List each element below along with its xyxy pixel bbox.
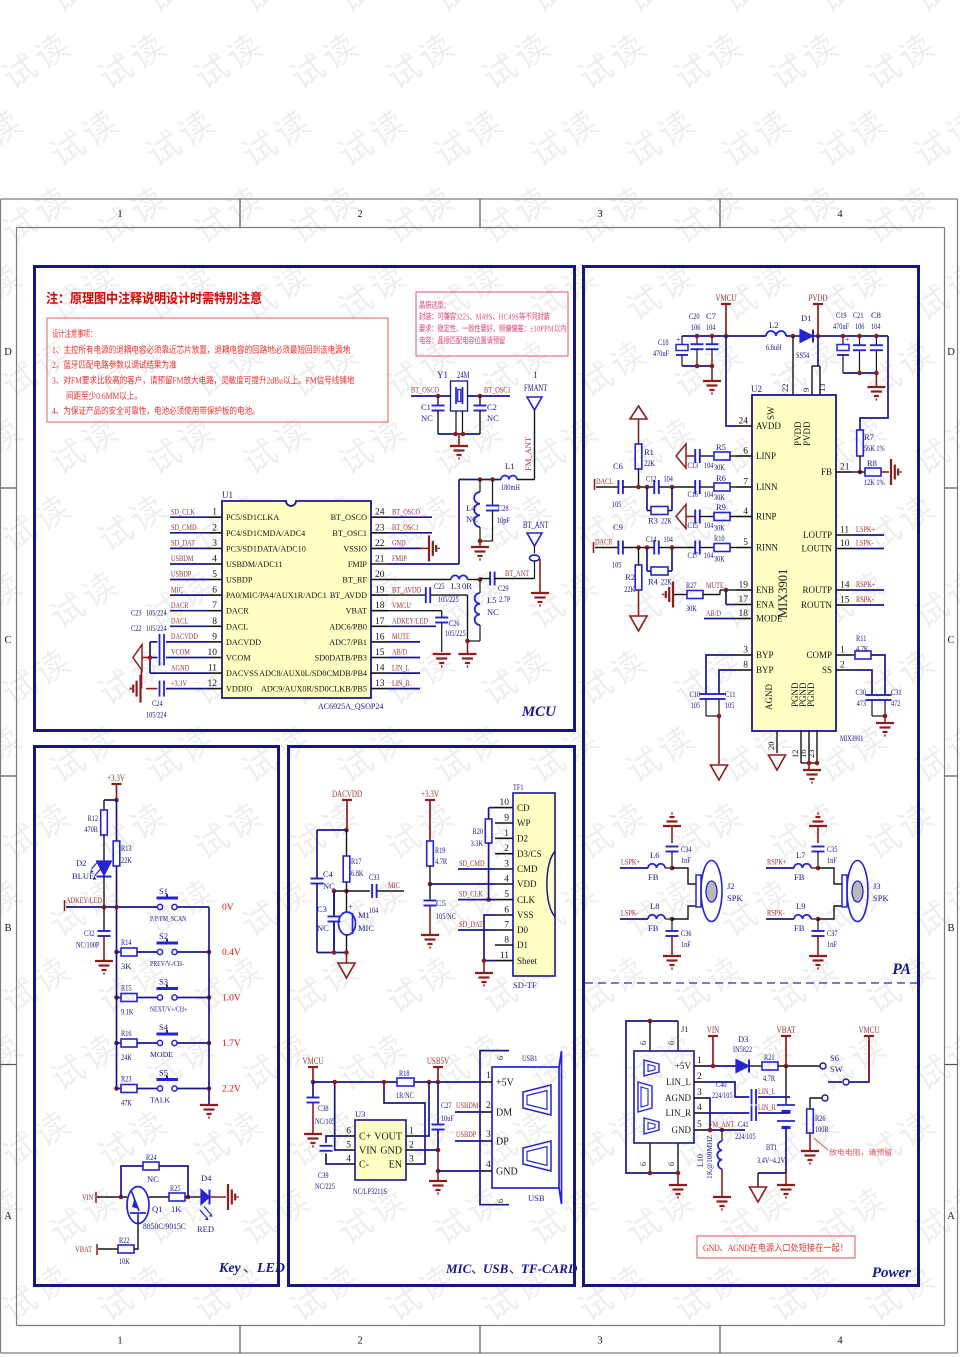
svg-text:R2: R2 [625,572,635,582]
earth ground D4 [227,1184,229,1210]
wire VDD row [430,883,495,885]
resistor R4 loop [646,548,648,572]
svg-text:C23: C23 [131,608,142,618]
svg-text:473: 473 [857,698,866,708]
svg-text:DACVSS: DACVSS [226,669,259,678]
svg-text:J3: J3 [873,881,881,891]
svg-text:1: 1 [504,829,509,839]
junction PVDD flag [816,334,821,339]
svg-text:B: B [4,923,11,934]
svg-text:15: 15 [840,596,850,606]
wire net DACR [170,610,210,612]
wire FM antenna [534,410,536,480]
svg-text:WP: WP [517,818,531,828]
U1 pin 7 stub left [210,610,222,612]
svg-text:104: 104 [704,489,714,499]
capacitor C21 [859,336,861,345]
U1 pin 15 stub right [371,657,388,659]
resistor R23 [114,1086,119,1091]
capacitor C16 [694,480,696,494]
wire right cap gnd bus [843,372,876,374]
svg-text:BT1: BT1 [766,1142,777,1152]
U3 pin 2 GND stub [406,1149,416,1151]
svg-text:C30: C30 [856,687,867,697]
svg-text:6: 6 [667,1041,676,1045]
wire BT_RF pin20 [388,579,451,581]
svg-text:6: 6 [496,1056,505,1060]
svg-text:L10: L10 [696,1154,705,1167]
svg-text:L8: L8 [650,901,659,911]
resistor R10 [714,544,730,552]
wire S4 to rail [177,1042,209,1044]
svg-text:NC: NC [317,923,329,933]
svg-text:PA: PA [892,961,911,978]
inverted ground above C35 [809,825,827,827]
svg-text:TALK: TALK [150,1096,171,1105]
wire C6 to C12 [623,486,654,488]
junction right gnd bus [857,371,862,376]
svg-text:10: 10 [500,798,510,808]
J1 pin 5 GND stub [694,1129,706,1131]
svg-text:14: 14 [840,581,850,591]
svg-text:SD-TF: SD-TF [513,980,537,990]
svg-text:C: C [4,635,11,646]
LED D4 RED [201,1190,210,1205]
svg-text:6.8K: 6.8K [351,868,364,878]
junction L10 [720,1128,725,1133]
J1 pin 3 AGND stub [694,1097,706,1099]
U2 pin 22 SW stub [792,336,794,395]
junction L4 bottom [478,539,483,544]
gnd agnd note box [697,1236,855,1258]
junction C34 [670,866,675,871]
capacitor C38 [312,1082,314,1098]
U2 pin 20 AGND stub [776,731,778,753]
svg-text:RINN: RINN [756,543,778,553]
diode D1 SS54 [800,330,813,343]
svg-text:BT_OSC1: BT_OSC1 [332,529,367,538]
svg-text:NEXT/V+/CH+: NEXT/V+/CH+ [150,1005,188,1014]
svg-text:AGND: AGND [764,684,774,710]
usb rail wire [313,1081,397,1083]
svg-text:SD_DAT: SD_DAT [459,919,484,929]
svg-text:1: 1 [486,1071,491,1081]
svg-text:LSPK+: LSPK+ [621,857,640,867]
resistor R12 [101,810,108,835]
svg-text:AC6925A_QSOP24: AC6925A_QSOP24 [318,702,383,711]
svg-text:FMIP: FMIP [348,560,368,569]
svg-text:+5V: +5V [496,1078,515,1089]
svg-text:L6: L6 [650,850,659,860]
svg-text:4.7R: 4.7R [763,1073,775,1083]
U1 pin 14 stub right [371,672,388,674]
svg-text:L4: L4 [466,503,476,513]
TF1 pin 6 VSS stub [495,914,513,916]
svg-text:10K: 10K [119,1256,130,1266]
svg-text:ROUTP: ROUTP [802,585,832,595]
svg-text:C37: C37 [827,928,838,938]
svg-text:C: C [947,635,954,646]
svg-text:FB: FB [648,872,659,882]
svg-text:ENB: ENB [756,585,774,595]
svg-text:VMCU: VMCU [858,1026,879,1036]
svg-text:PA0/MIC/PA4/AUX1R/ADC1: PA0/MIC/PA4/AUX1R/ADC1 [226,591,327,600]
svg-text:2: 2 [504,844,509,854]
svg-text:4: 4 [837,209,843,220]
open arrow RINP [676,505,686,529]
capacitor C12 [653,480,655,494]
svg-text:22K: 22K [624,584,635,594]
TF1 pin 11 Sheet stub [495,960,513,962]
svg-text:NC/100P: NC/100P [76,940,100,950]
capacitor C25 [425,587,427,603]
capacitor C23 [159,634,161,650]
svg-text:S5: S5 [159,1068,168,1078]
svg-text:C12: C12 [646,474,657,484]
U2 pin 2 SS stub [836,669,852,671]
svg-text:3K: 3K [121,961,132,971]
ground C32 [95,960,113,962]
wire left cap gnd bus [682,365,712,367]
capacitor C30 [866,694,879,696]
svg-text:5: 5 [697,1120,702,1130]
svg-text:LIN_R: LIN_R [666,1108,692,1118]
svg-text:105/225: 105/225 [445,628,466,638]
capacitor C29 [489,572,491,586]
U2 pin 15 ROUTN stub [836,604,852,606]
U1 pin 13 stub right [371,688,388,690]
svg-text:R5: R5 [716,442,726,452]
svg-text:PC3/SD1DATA/ADC10: PC3/SD1DATA/ADC10 [226,544,306,553]
wire to speaker top [672,868,696,884]
svg-text:C4: C4 [323,869,334,879]
svg-text:VMCU: VMCU [392,600,411,610]
svg-text:SD_DAT: SD_DAT [171,538,196,548]
wire BT_AVDD pin19 [388,594,426,596]
svg-text:8850C/9015C: 8850C/9015C [143,1221,186,1231]
svg-text:R26: R26 [815,1113,826,1123]
net label RSPK+ [852,589,884,591]
svg-text:C7: C7 [706,311,716,321]
junction VDD [428,882,433,887]
inverted ground above C34 [663,825,681,827]
IC U1 AC6925A [222,501,371,698]
wire VBAT [98,1248,118,1250]
svg-text:106: 106 [855,321,864,331]
wire S2 to rail [177,951,209,953]
ground below C26 [433,653,451,655]
wire C30 C31 gnd [872,715,885,717]
wire S3 to rail [177,997,209,999]
capacitor C22 [159,650,161,666]
svg-text:PVDD: PVDD [802,421,812,446]
svg-text:NC/225: NC/225 [315,1181,335,1191]
wire mic gnd bus [317,952,347,954]
U2 pin 3 BYP stub [736,654,752,656]
svg-text:RSPK-: RSPK- [856,594,874,604]
J1 pin 2 LIN_L stub [694,1081,706,1083]
svg-text:SPK: SPK [873,893,889,903]
junction C36 [670,917,675,922]
svg-text:9.1K: 9.1K [121,1007,134,1017]
svg-text:FB: FB [648,923,659,933]
svg-text:GND: GND [392,538,406,548]
capacitor C35 [812,846,825,848]
svg-text:USBDP: USBDP [171,569,191,579]
svg-text:C6: C6 [613,461,623,471]
wire LIN_R pin13 [388,688,420,690]
wire crystal gnd bus [438,433,480,435]
junction VCOM [148,655,153,660]
svg-text:3.3K: 3.3K [471,838,484,848]
svg-text:470uF: 470uF [653,348,669,358]
svg-text:1K@100MHZ: 1K@100MHZ [705,1135,714,1179]
svg-text:C24: C24 [152,698,163,708]
capacitor C2 [479,396,481,406]
junction crystal left [436,394,441,399]
svg-text:D: D [4,347,12,358]
svg-text:C39: C39 [318,1170,329,1180]
svg-text:L1: L1 [505,461,514,471]
TF1 pin 10 CD stub [495,807,513,809]
svg-text:Key: Key [218,1261,242,1276]
svg-text:C29: C29 [498,583,509,593]
svg-text:104: 104 [871,321,881,331]
svg-text:4: 4 [486,1160,491,1170]
svg-text:BT_OSC1: BT_OSC1 [392,522,419,532]
svg-text:3.4V~4.2V: 3.4V~4.2V [757,1155,786,1165]
svg-text:BLUE: BLUE [72,871,94,881]
svg-text:21: 21 [375,555,385,565]
U2 pin 4 RINP stub [736,516,752,518]
svg-text:104: 104 [369,905,379,915]
MCU block border [35,267,575,731]
svg-text:1nF: 1nF [827,939,837,949]
svg-text:R20: R20 [473,826,484,836]
wire DACL in [596,486,618,488]
ground below L4 [479,541,481,546]
wire net USBDM [170,563,210,565]
Key LED title [218,1261,242,1276]
svg-text:VCOM: VCOM [171,647,190,657]
svg-text:+: + [845,335,850,344]
svg-text:104: 104 [706,322,716,332]
svg-text:C14: C14 [646,534,657,544]
svg-text:6: 6 [639,1041,648,1045]
svg-text:RSPK-: RSPK- [767,908,785,918]
svg-text:C35: C35 [827,844,838,854]
svg-text:LED: LED [256,1261,285,1276]
svg-text:4: 4 [212,555,217,565]
switch S1 [157,904,162,909]
crystal notes text [420,301,446,309]
svg-text:C15: C15 [688,520,699,530]
wire DACVDD left branch [317,829,347,831]
U1 pin 5 stub left [210,579,222,581]
capacitor C26 [441,611,443,618]
switch S3 [157,995,162,1000]
svg-text:AB/D: AB/D [392,647,407,657]
svg-text:BT_OSCO: BT_OSCO [331,513,367,522]
svg-text:R8: R8 [867,458,877,468]
ground battery [785,1173,787,1184]
U3 pin 3 EN stub [406,1163,416,1165]
wire USB GND [438,1170,485,1172]
svg-text:Y1: Y1 [437,370,448,380]
svg-text:BT_OSCO: BT_OSCO [411,385,439,395]
ground TF [483,961,485,972]
U2 pin 1 COMP stub [836,654,852,656]
svg-text:U3: U3 [355,1109,365,1119]
svg-text:106: 106 [691,322,700,332]
TF1 pin 4 VDD stub [495,883,513,885]
U1 pin 20 stub right [371,579,388,581]
svg-text:SS: SS [822,665,832,675]
svg-text:22K: 22K [661,516,672,526]
key rail vertical [208,907,210,1104]
wire net DACL [170,625,210,627]
junction C20 rail [695,334,700,339]
svg-text:R19: R19 [435,845,446,855]
USB1 pin 3 DP stub [485,1140,492,1142]
svg-text:S3: S3 [159,977,168,987]
capacitor C8 [875,336,877,345]
svg-text:COMP: COMP [806,650,832,660]
svg-text:NC/LP3211S: NC/LP3211S [353,1186,387,1196]
svg-text:R3: R3 [648,516,658,526]
svg-text:11: 11 [500,951,509,961]
resistor R16 [114,1041,119,1046]
wire +3.3V pin12 [146,688,158,690]
svg-text:C10: C10 [690,689,701,699]
svg-text:1nF: 1nF [681,939,691,949]
earth ground at +3.3V cap [139,675,141,703]
svg-text:SW: SW [766,406,776,420]
svg-text:30K: 30K [686,603,697,613]
ground J1 shell [677,1173,679,1184]
svg-text:1nF: 1nF [681,855,691,865]
junction L1 left [478,477,483,482]
capacitor C18 470uF polarized [681,336,683,344]
svg-text:C16: C16 [688,489,699,499]
U2 pin 18 MODE stub [736,618,752,620]
svg-text:C19: C19 [836,310,847,320]
svg-text:6.8uH: 6.8uH [766,342,782,352]
capacitor C39 [320,1145,333,1147]
svg-text:224/105: 224/105 [712,1090,733,1100]
svg-text:R25: R25 [170,1183,181,1193]
U2 pins 9 13 PVDD stubs [817,336,819,366]
capacitor C24 [159,681,161,697]
resistor R2 [638,548,640,566]
svg-text:ADC6/PB0: ADC6/PB0 [329,622,367,631]
svg-text:DACVDD: DACVDD [171,631,198,641]
svg-text:BYP: BYP [756,650,774,660]
svg-text:VBAT: VBAT [75,1244,93,1254]
usb contact upper [523,1085,551,1115]
U2 pin 8 BYP stub [736,669,752,671]
wire D1 to right caps [813,335,888,337]
svg-text:SS54: SS54 [796,350,810,360]
crystal selection notes box [416,292,568,356]
ground C5 [421,934,439,936]
J1 shell stubs [649,1021,651,1051]
svg-text:LIN_L: LIN_L [758,1086,776,1096]
svg-text:AVDD: AVDD [756,421,781,431]
svg-text:1.0V: 1.0V [222,994,241,1004]
svg-text:0V: 0V [222,903,234,913]
svg-text:C+: C+ [359,1132,372,1143]
svg-text:MODE: MODE [150,1050,173,1059]
svg-text:1: 1 [117,1336,122,1347]
svg-text:C31: C31 [891,687,902,697]
svg-text:VCOM: VCOM [226,654,251,663]
ground R26 [801,1150,819,1152]
svg-text:10: 10 [208,648,218,658]
junction MIC node [344,889,349,894]
svg-text:FB: FB [794,872,805,882]
svg-text:LINN: LINN [756,482,778,492]
net label LSPK+ [852,534,884,536]
capacitor C27 [437,1082,439,1125]
wire VIN [97,1196,127,1198]
svg-text:DACR: DACR [171,600,189,610]
capacitor C40 [751,1089,753,1105]
svg-text:NC: NC [487,607,499,617]
ground C36 [663,955,681,957]
svg-text:3: 3 [486,1130,491,1140]
svg-text:USBDP: USBDP [226,576,253,585]
svg-text:TF1: TF1 [513,782,524,792]
resistor R18 [397,1078,414,1086]
svg-text:CD: CD [517,803,530,813]
wire net USBDP [170,579,210,581]
svg-text:DM: DM [496,1108,512,1119]
open triangle down bias [630,616,647,631]
wire R22 to Q1 [134,1224,138,1250]
svg-text:USB5V: USB5V [427,1057,449,1067]
svg-text:R7: R7 [864,432,874,442]
svg-text:5: 5 [504,890,509,900]
open arrow LINP [676,444,686,468]
switch S6 [820,1063,826,1069]
Key LED block border [35,747,279,1286]
svg-text:DACVDD: DACVDD [332,790,362,800]
svg-text:30K: 30K [714,523,725,533]
svg-text:BT_ANT: BT_ANT [505,568,530,578]
svg-text:SD_CLK: SD_CLK [459,889,483,899]
svg-text:8: 8 [212,617,217,627]
svg-text:PGND: PGND [806,682,816,707]
ground C37 [809,955,827,957]
wire AVDD from VMCU [726,336,736,426]
svg-text:3: 3 [697,1088,702,1098]
svg-text:U1: U1 [222,490,233,500]
svg-text:L2: L2 [769,320,778,330]
U1 pin 23 stub right [371,532,388,534]
svg-text:18: 18 [739,609,749,619]
svg-text:24: 24 [375,508,385,518]
wire GND pin22 [388,547,421,549]
svg-text:DACR: DACR [226,607,249,616]
wire BT_OSC1 pin23 [388,532,432,534]
svg-text:23: 23 [375,523,385,533]
svg-text:+3.3V: +3.3V [421,790,439,800]
connector TF1 SD-TF [513,793,555,976]
svg-text:470uF: 470uF [833,321,849,331]
svg-text:C38: C38 [318,1103,329,1113]
svg-text:LIN_L: LIN_L [392,662,410,672]
